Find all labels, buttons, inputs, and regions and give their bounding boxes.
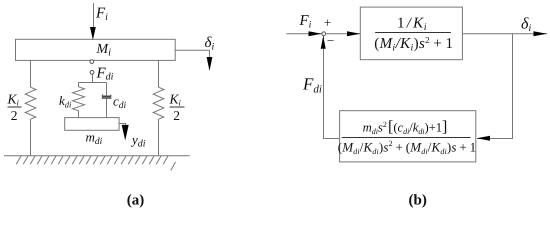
svg-text:kdi: kdi	[59, 93, 72, 110]
svg-text:(Mdi/Kdi)s2 + (Mdi/Kdi)s + 1: (Mdi/Kdi)s2 + (Mdi/Kdi)s + 1	[338, 139, 476, 156]
svg-text:2: 2	[11, 108, 18, 123]
svg-text:Fdi: Fdi	[302, 75, 322, 96]
svg-text:δi: δi	[205, 35, 215, 53]
svg-text:Ki: Ki	[7, 91, 20, 107]
svg-text:(a): (a)	[127, 192, 145, 208]
svg-text:(Mi/Ki)s2 + 1: (Mi/Ki)s2 + 1	[374, 35, 453, 54]
svg-text:Fi: Fi	[299, 13, 312, 31]
svg-text:mdis2 [(cdi/kdi)+1]: mdis2 [(cdi/kdi)+1]	[363, 119, 448, 137]
svg-text:−: −	[327, 33, 334, 48]
svg-text:δi: δi	[521, 15, 531, 34]
svg-text:2: 2	[173, 108, 180, 123]
svg-text:ydi: ydi	[130, 132, 146, 150]
svg-text:Mi: Mi	[96, 42, 112, 59]
svg-text:cdi: cdi	[113, 94, 127, 112]
svg-text:Fi: Fi	[95, 5, 108, 23]
svg-text:(b): (b)	[409, 192, 427, 208]
svg-text:1 / Ki: 1 / Ki	[397, 16, 427, 34]
svg-text:mdi: mdi	[86, 130, 103, 148]
svg-text:Fdi: Fdi	[96, 66, 114, 83]
svg-text:Ki: Ki	[169, 91, 182, 107]
svg-text:+: +	[324, 15, 331, 30]
